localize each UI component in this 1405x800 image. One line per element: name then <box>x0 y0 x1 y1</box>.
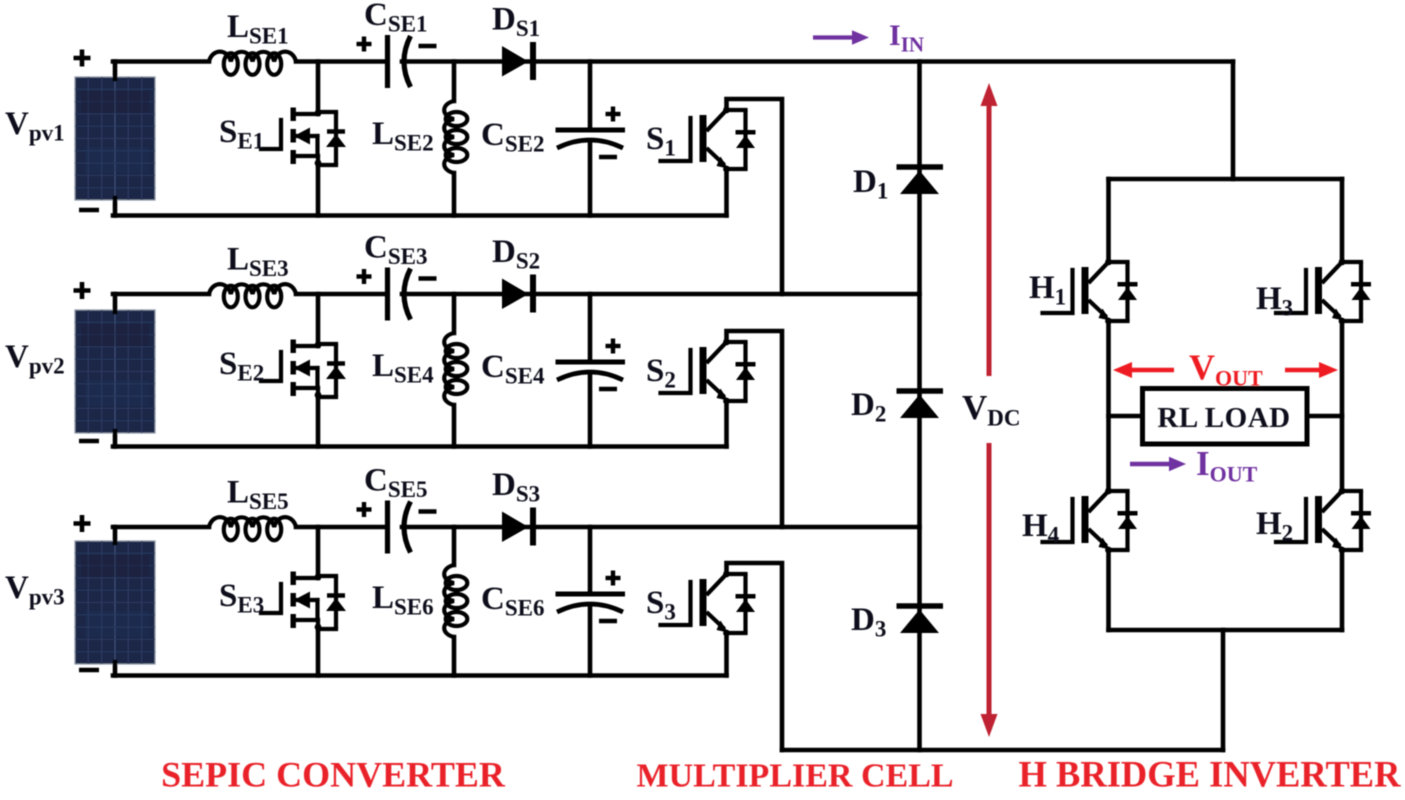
CSE4 plus sign <box>606 339 621 354</box>
wire LSE2 bottom <box>452 173 457 216</box>
diode DS3 <box>502 508 533 546</box>
capacitor CSE5 <box>388 501 411 554</box>
CSE1 plus sign <box>357 37 372 52</box>
wire LSE4 bottom <box>452 405 457 447</box>
Vpv3 plus terminal <box>74 515 91 532</box>
diode DS2 <box>502 275 533 313</box>
D3 label <box>851 602 886 642</box>
wire Vpv1 top stub <box>113 62 118 80</box>
LSE3 label <box>227 242 289 282</box>
V_DC arrow up <box>981 83 998 376</box>
capacitor CSE6 <box>556 594 626 612</box>
wire row2 top rail <box>113 292 920 297</box>
wire H-bridge right leg <box>1340 179 1345 630</box>
diode D1 <box>897 167 944 194</box>
inductor LSE5 <box>209 517 296 540</box>
wire Vpv3 bottom stub <box>113 662 118 676</box>
capacitor CSE3 <box>388 268 411 321</box>
CSE4 minus sign <box>599 387 617 391</box>
wire S2 emitter link <box>724 401 729 447</box>
wire LSE4 top <box>452 294 457 333</box>
capacitor CSE2 <box>556 130 626 148</box>
wire SE3 source <box>316 629 321 676</box>
svg-text:RL LOAD: RL LOAD <box>1157 402 1290 434</box>
wire LSE6 bottom <box>452 637 457 676</box>
S1 label <box>646 121 676 161</box>
DS3 label <box>492 467 540 507</box>
IGBT switch S1 <box>661 107 756 173</box>
SE3 label <box>219 578 264 618</box>
CSE2 minus sign <box>599 155 617 159</box>
V_OUT right arrow <box>1285 362 1338 378</box>
PV source Vpv1 panel <box>75 77 155 200</box>
wire H-bridge bottom feed <box>1221 630 1226 750</box>
D2 label <box>851 387 886 427</box>
wire row3 top rail <box>113 525 920 530</box>
MOSFET SE1 <box>261 108 346 167</box>
Vpv1 label <box>5 106 65 146</box>
CSE5 plus sign <box>357 502 372 517</box>
LSE5 label <box>227 475 289 515</box>
diode D3 <box>897 606 944 633</box>
Vpv2 minus terminal <box>79 439 99 444</box>
CSE6 plus sign <box>606 571 621 586</box>
wire S1 collector link <box>727 99 783 294</box>
inductor LSE4 <box>444 333 467 405</box>
wire load right <box>1307 414 1342 419</box>
wire CSE4 top <box>588 294 593 362</box>
svg-text:MULTIPLIER CELL: MULTIPLIER CELL <box>636 758 953 795</box>
caption SEPIC CONVERTER <box>161 755 506 795</box>
S2 label <box>646 353 676 393</box>
wire SE1 source <box>316 165 321 216</box>
wire H-bridge left leg <box>1106 179 1111 630</box>
wire LSE2 top <box>452 62 457 102</box>
V_DC label <box>962 388 1021 431</box>
CSE6 minus sign <box>599 619 617 623</box>
IGBT H2 <box>1276 488 1371 554</box>
wire CSE6 top <box>588 527 593 594</box>
V_OUT left arrow <box>1113 362 1174 378</box>
IGBT H3 <box>1276 259 1371 325</box>
CSE3 label <box>364 230 427 270</box>
IGBT switch S3 <box>661 571 756 637</box>
svg-text:SEPIC CONVERTER: SEPIC CONVERTER <box>161 755 506 795</box>
wire Vpv2 bottom stub <box>113 431 118 447</box>
CSE4 label <box>481 349 545 389</box>
wire S1 emitter link <box>724 169 729 216</box>
MOSFET SE2 <box>261 340 346 399</box>
caption MULTIPLIER CELL <box>636 758 953 795</box>
PV source Vpv2 panel <box>75 310 155 433</box>
LSE6 label <box>372 580 434 620</box>
wire Vpv3 top stub <box>113 527 118 543</box>
capacitor CSE4 <box>556 362 626 380</box>
CSE1 minus sign <box>419 44 437 48</box>
Vpv1 minus terminal <box>79 208 99 213</box>
I_OUT label <box>1196 444 1258 487</box>
MOSFET SE3 <box>261 572 346 631</box>
wire H-bridge bottom rail <box>1109 628 1343 633</box>
inductor LSE6 <box>444 565 467 637</box>
wire H-bridge top rail <box>1109 177 1343 182</box>
V_DC arrow down <box>981 443 998 737</box>
PV source Vpv3 panel <box>75 541 155 664</box>
wire row1 bottom rail <box>113 213 727 218</box>
CSE2 label <box>481 117 544 157</box>
wire load left <box>1109 414 1143 419</box>
CSE2 plus sign <box>606 107 621 122</box>
I_OUT arrow <box>1130 457 1186 471</box>
wire row3 bottom rail <box>113 673 727 678</box>
wire SE2 drain <box>316 294 321 346</box>
svg-text:H BRIDGE INVERTER: H BRIDGE INVERTER <box>1018 754 1401 795</box>
wire H-bridge feed <box>1231 62 1236 180</box>
H2 label <box>1256 506 1293 546</box>
H4 label <box>1022 508 1060 548</box>
CSE5 label <box>364 463 427 503</box>
DS1 label <box>492 2 540 42</box>
I_IN arrow <box>813 30 869 44</box>
Vpv2 plus terminal <box>74 282 91 299</box>
wire SE3 drain <box>316 527 321 578</box>
CSE1 label <box>364 0 427 37</box>
wire SE1 drain <box>316 62 321 115</box>
H1 label <box>1029 270 1066 310</box>
DS2 label <box>492 234 540 274</box>
wire CSE4 bottom <box>588 375 593 447</box>
RL LOAD box <box>1143 389 1308 445</box>
wire CSE6 bottom <box>588 607 593 676</box>
wire row2 bottom rail <box>113 444 727 449</box>
capacitor CSE1 <box>388 35 411 88</box>
wire bottom return <box>782 748 1223 753</box>
wire CSE2 top <box>588 62 593 131</box>
CSE5 minus sign <box>419 509 437 513</box>
inductor LSE1 <box>209 52 296 75</box>
caption H BRIDGE INVERTER <box>1018 754 1401 795</box>
IGBT H4 <box>1043 488 1138 554</box>
Vpv3 minus terminal <box>79 668 99 673</box>
H3 label <box>1256 281 1293 321</box>
wire S3 collector link <box>727 563 783 750</box>
Vpv3 label <box>5 570 65 610</box>
inductor LSE3 <box>209 284 296 307</box>
wire SE2 source <box>316 397 321 447</box>
inductor LSE2 <box>444 101 467 173</box>
LSE2 label <box>372 116 434 156</box>
IGBT switch S2 <box>661 339 756 405</box>
CSE3 minus sign <box>419 276 437 280</box>
CSE3 plus sign <box>357 269 372 284</box>
D1 label <box>853 164 888 204</box>
RL LOAD text <box>1157 402 1290 434</box>
SE1 label <box>219 114 264 154</box>
wire CSE2 bottom <box>588 143 593 216</box>
wire LSE6 top <box>452 527 457 565</box>
wire S2 collector link <box>727 331 783 527</box>
wire S3 emitter link <box>724 633 729 676</box>
Vpv1 plus terminal <box>74 50 91 67</box>
wire Vpv1 bottom stub <box>113 198 118 216</box>
V_OUT label <box>1189 347 1263 391</box>
I_IN label <box>889 19 924 57</box>
SE2 label <box>219 346 264 386</box>
S3 label <box>646 585 676 625</box>
Vpv2 label <box>5 339 65 379</box>
IGBT H1 <box>1043 259 1138 325</box>
LSE4 label <box>372 348 434 388</box>
LSE1 label <box>227 9 289 49</box>
diode DS1 <box>502 42 533 80</box>
wire multiplier bus <box>917 62 922 751</box>
wire row1 top rail <box>113 59 1233 64</box>
diode D2 <box>897 391 944 418</box>
wire Vpv2 top stub <box>113 294 118 312</box>
CSE6 label <box>481 581 544 621</box>
